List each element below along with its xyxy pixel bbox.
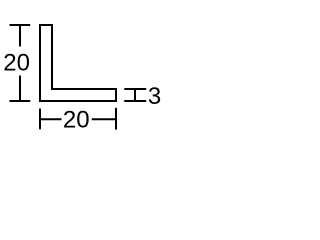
left dimension bottom tick	[10, 100, 31, 102]
thickness tick top bar	[124, 88, 146, 90]
thickness tick vertical bar	[134, 88, 136, 102]
svg-text:3: 3	[148, 83, 161, 110]
thickness tick bottom bar	[124, 100, 146, 102]
bottom dimension left tick	[39, 109, 41, 130]
bottom dimension line left segment	[39, 118, 62, 120]
L-angle profile outline	[40, 25, 116, 101]
svg-text:20: 20	[3, 50, 30, 77]
svg-text:20: 20	[63, 107, 90, 134]
left dimension line lower segment	[19, 76, 21, 103]
left dimension top tick	[10, 24, 31, 26]
bottom dimension line right segment	[92, 118, 117, 120]
bottom dimension right tick	[115, 108, 117, 130]
left dimension line upper segment	[19, 24, 21, 47]
